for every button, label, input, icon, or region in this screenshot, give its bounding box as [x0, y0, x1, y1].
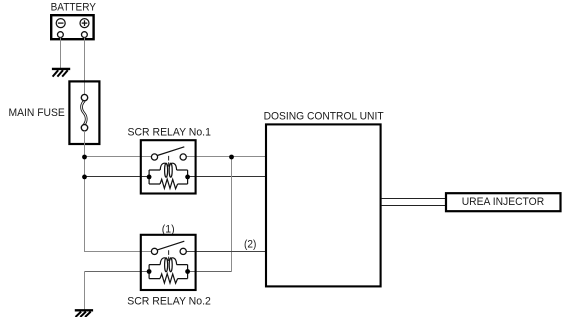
wire row D left (ground riser to relay2 coil) — [85, 271, 150, 273]
relay K1 switch blade — [157, 147, 184, 156]
relay K2 switch blade — [157, 241, 184, 250]
battery positive terminal symbol — [80, 19, 89, 28]
wire control unit to urea injector (lower) — [381, 205, 446, 207]
relay K1 resistor R1 — [160, 179, 178, 189]
fuse element S-curve — [82, 101, 87, 125]
wire bus from fuse down with elbow to relay 2 switch row — [85, 131, 152, 252]
battery pin circle (negative) — [58, 32, 64, 38]
svg-text:SCR RELAY No.1: SCR RELAY No.1 — [128, 127, 211, 139]
fuse top terminal circle — [81, 94, 87, 100]
relay K2 coil terminal dot left — [147, 269, 152, 274]
junction dot bus / row A — [82, 155, 87, 160]
wire row D right (relay2 coil to drop wire) — [188, 271, 232, 273]
relay K2 switch contact circles — [151, 248, 157, 254]
battery pin circle (positive) — [82, 32, 88, 38]
wire row B left (bus to relay1 coil) — [85, 176, 150, 178]
battery negative terminal symbol — [56, 19, 65, 28]
relay K1 coil/resistor parallel branch rails — [149, 170, 188, 184]
relay K2 box — [141, 235, 196, 290]
relay K1 box — [141, 140, 196, 193]
relay K2 coil terminal dot right — [185, 269, 190, 274]
wire vertical drop from row A to relay2 coil row — [231, 157, 233, 272]
svg-text:SCR RELAY No.2: SCR RELAY No.2 — [127, 296, 211, 308]
relay K2 actuator dashed link — [168, 250, 170, 261]
dosing control unit box — [266, 124, 381, 286]
wire battery positive down to fuse — [84, 38, 86, 96]
ground G1 — [52, 69, 70, 77]
svg-text:MAIN FUSE: MAIN FUSE — [9, 107, 65, 119]
svg-text:UREA INJECTOR: UREA INJECTOR — [462, 196, 545, 208]
wire control unit to urea injector (upper) — [381, 198, 446, 200]
wire battery negative to ground — [60, 38, 62, 69]
junction dot row A / drop wire — [229, 155, 234, 160]
relay K1 coil terminal dot right — [185, 175, 190, 180]
svg-text:BATTERY: BATTERY — [51, 1, 97, 13]
fuse bottom terminal circle — [81, 125, 87, 131]
wire row A right (relay1 switch to control unit) — [186, 156, 266, 158]
relay K2 coil/resistor parallel branch rails — [149, 265, 188, 279]
relay K2 resistor R2 — [160, 274, 178, 284]
wire row A left (bus to relay1 switch) — [85, 156, 152, 158]
relay K1 coil terminal dot left — [147, 175, 152, 180]
svg-text:DOSING CONTROL UNIT: DOSING CONTROL UNIT — [264, 110, 384, 122]
svg-text:(1): (1) — [162, 223, 175, 235]
relay K1 switch contact circles — [151, 154, 157, 160]
wire row C right (relay2 switch to control unit) — [186, 251, 266, 253]
urea injector box — [446, 193, 561, 211]
svg-text:(2): (2) — [244, 239, 256, 251]
relay K1 actuator dashed link — [168, 156, 170, 167]
relay K2 coil L2 — [160, 258, 176, 265]
main fuse F1 box — [69, 81, 99, 144]
relay K1 coil L1 — [160, 163, 176, 170]
battery B1 box — [51, 15, 93, 39]
ground G2 — [75, 310, 93, 317]
wire row B right (relay1 coil to control unit) — [188, 176, 266, 178]
junction dot bus / row B — [82, 175, 87, 180]
wire relay2 coil to ground — [84, 272, 86, 311]
